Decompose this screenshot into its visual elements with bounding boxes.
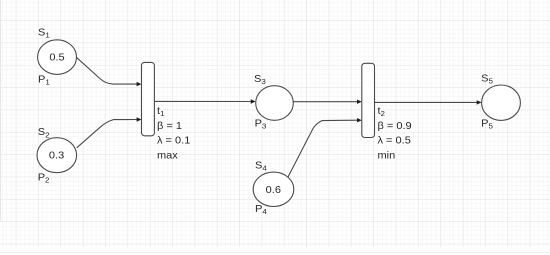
- svg-text:max: max: [157, 151, 179, 161]
- svg-text:λ = 0.5: λ = 0.5: [378, 136, 412, 146]
- arrowhead P2 to t1: [137, 117, 142, 121]
- page edge bottom: [0, 252, 550, 254]
- wire P1 to t1: [77, 58, 137, 84]
- place P4: [253, 172, 294, 206]
- svg-text:β = 0.9: β = 0.9: [378, 121, 412, 131]
- wire t1 to P3: [155, 100, 251, 102]
- svg-text:0.3: 0.3: [49, 151, 65, 161]
- svg-text:λ = 0.1: λ = 0.1: [157, 136, 191, 146]
- svg-text:β = 1: β = 1: [157, 121, 182, 131]
- page edge left: [0, 0, 2, 221]
- arrowhead t1 to P3: [251, 99, 256, 103]
- place P3: [256, 86, 294, 121]
- place P2: [37, 138, 77, 173]
- wire t2 to P5: [375, 101, 477, 103]
- svg-text:min: min: [378, 151, 396, 161]
- svg-text:0.5: 0.5: [49, 53, 65, 63]
- wire P3 to t2: [293, 101, 357, 103]
- transition t1: [142, 62, 155, 135]
- place P1: [38, 40, 77, 75]
- wire P4 to t2: [288, 120, 357, 177]
- place P5: [482, 85, 521, 120]
- arrowhead P4 to t2: [357, 118, 362, 122]
- arrowhead P3 to t2: [357, 100, 362, 104]
- arrowhead t2 to P5: [477, 100, 482, 104]
- wire P2 to t1: [77, 120, 137, 148]
- transition t2: [362, 63, 375, 137]
- arrowhead P1 to t1: [137, 82, 142, 86]
- svg-text:0.6: 0.6: [266, 186, 282, 196]
